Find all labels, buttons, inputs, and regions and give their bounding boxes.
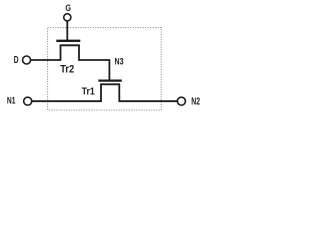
wire G to Tr2 gate	[66, 21, 68, 40]
svg-text:Tr2: Tr2	[60, 64, 74, 76]
dashed enclosure box	[48, 28, 162, 111]
svg-text:N1: N1	[7, 96, 16, 107]
transistor Tr2 gate bar	[56, 40, 80, 42]
svg-text:D: D	[14, 55, 19, 66]
transistor Tr1 gate bar	[98, 79, 122, 81]
node G terminal circle	[64, 14, 71, 21]
node D terminal circle	[23, 56, 31, 64]
svg-text:N2: N2	[191, 96, 200, 107]
svg-text:G: G	[65, 3, 71, 14]
svg-text:Tr1: Tr1	[82, 87, 95, 98]
node N1 terminal circle	[24, 97, 32, 105]
wire N1 to Tr1 source	[32, 100, 102, 102]
wire D to Tr2 source	[31, 59, 61, 61]
svg-text:N3: N3	[115, 56, 124, 67]
wire Tr2 drain to N3 node	[79, 60, 110, 80]
transistor Tr1 channel	[101, 84, 119, 102]
transistor Tr2 channel	[61, 45, 80, 61]
node N2 terminal circle	[177, 97, 185, 105]
wire Tr1 drain to N2	[119, 100, 178, 102]
